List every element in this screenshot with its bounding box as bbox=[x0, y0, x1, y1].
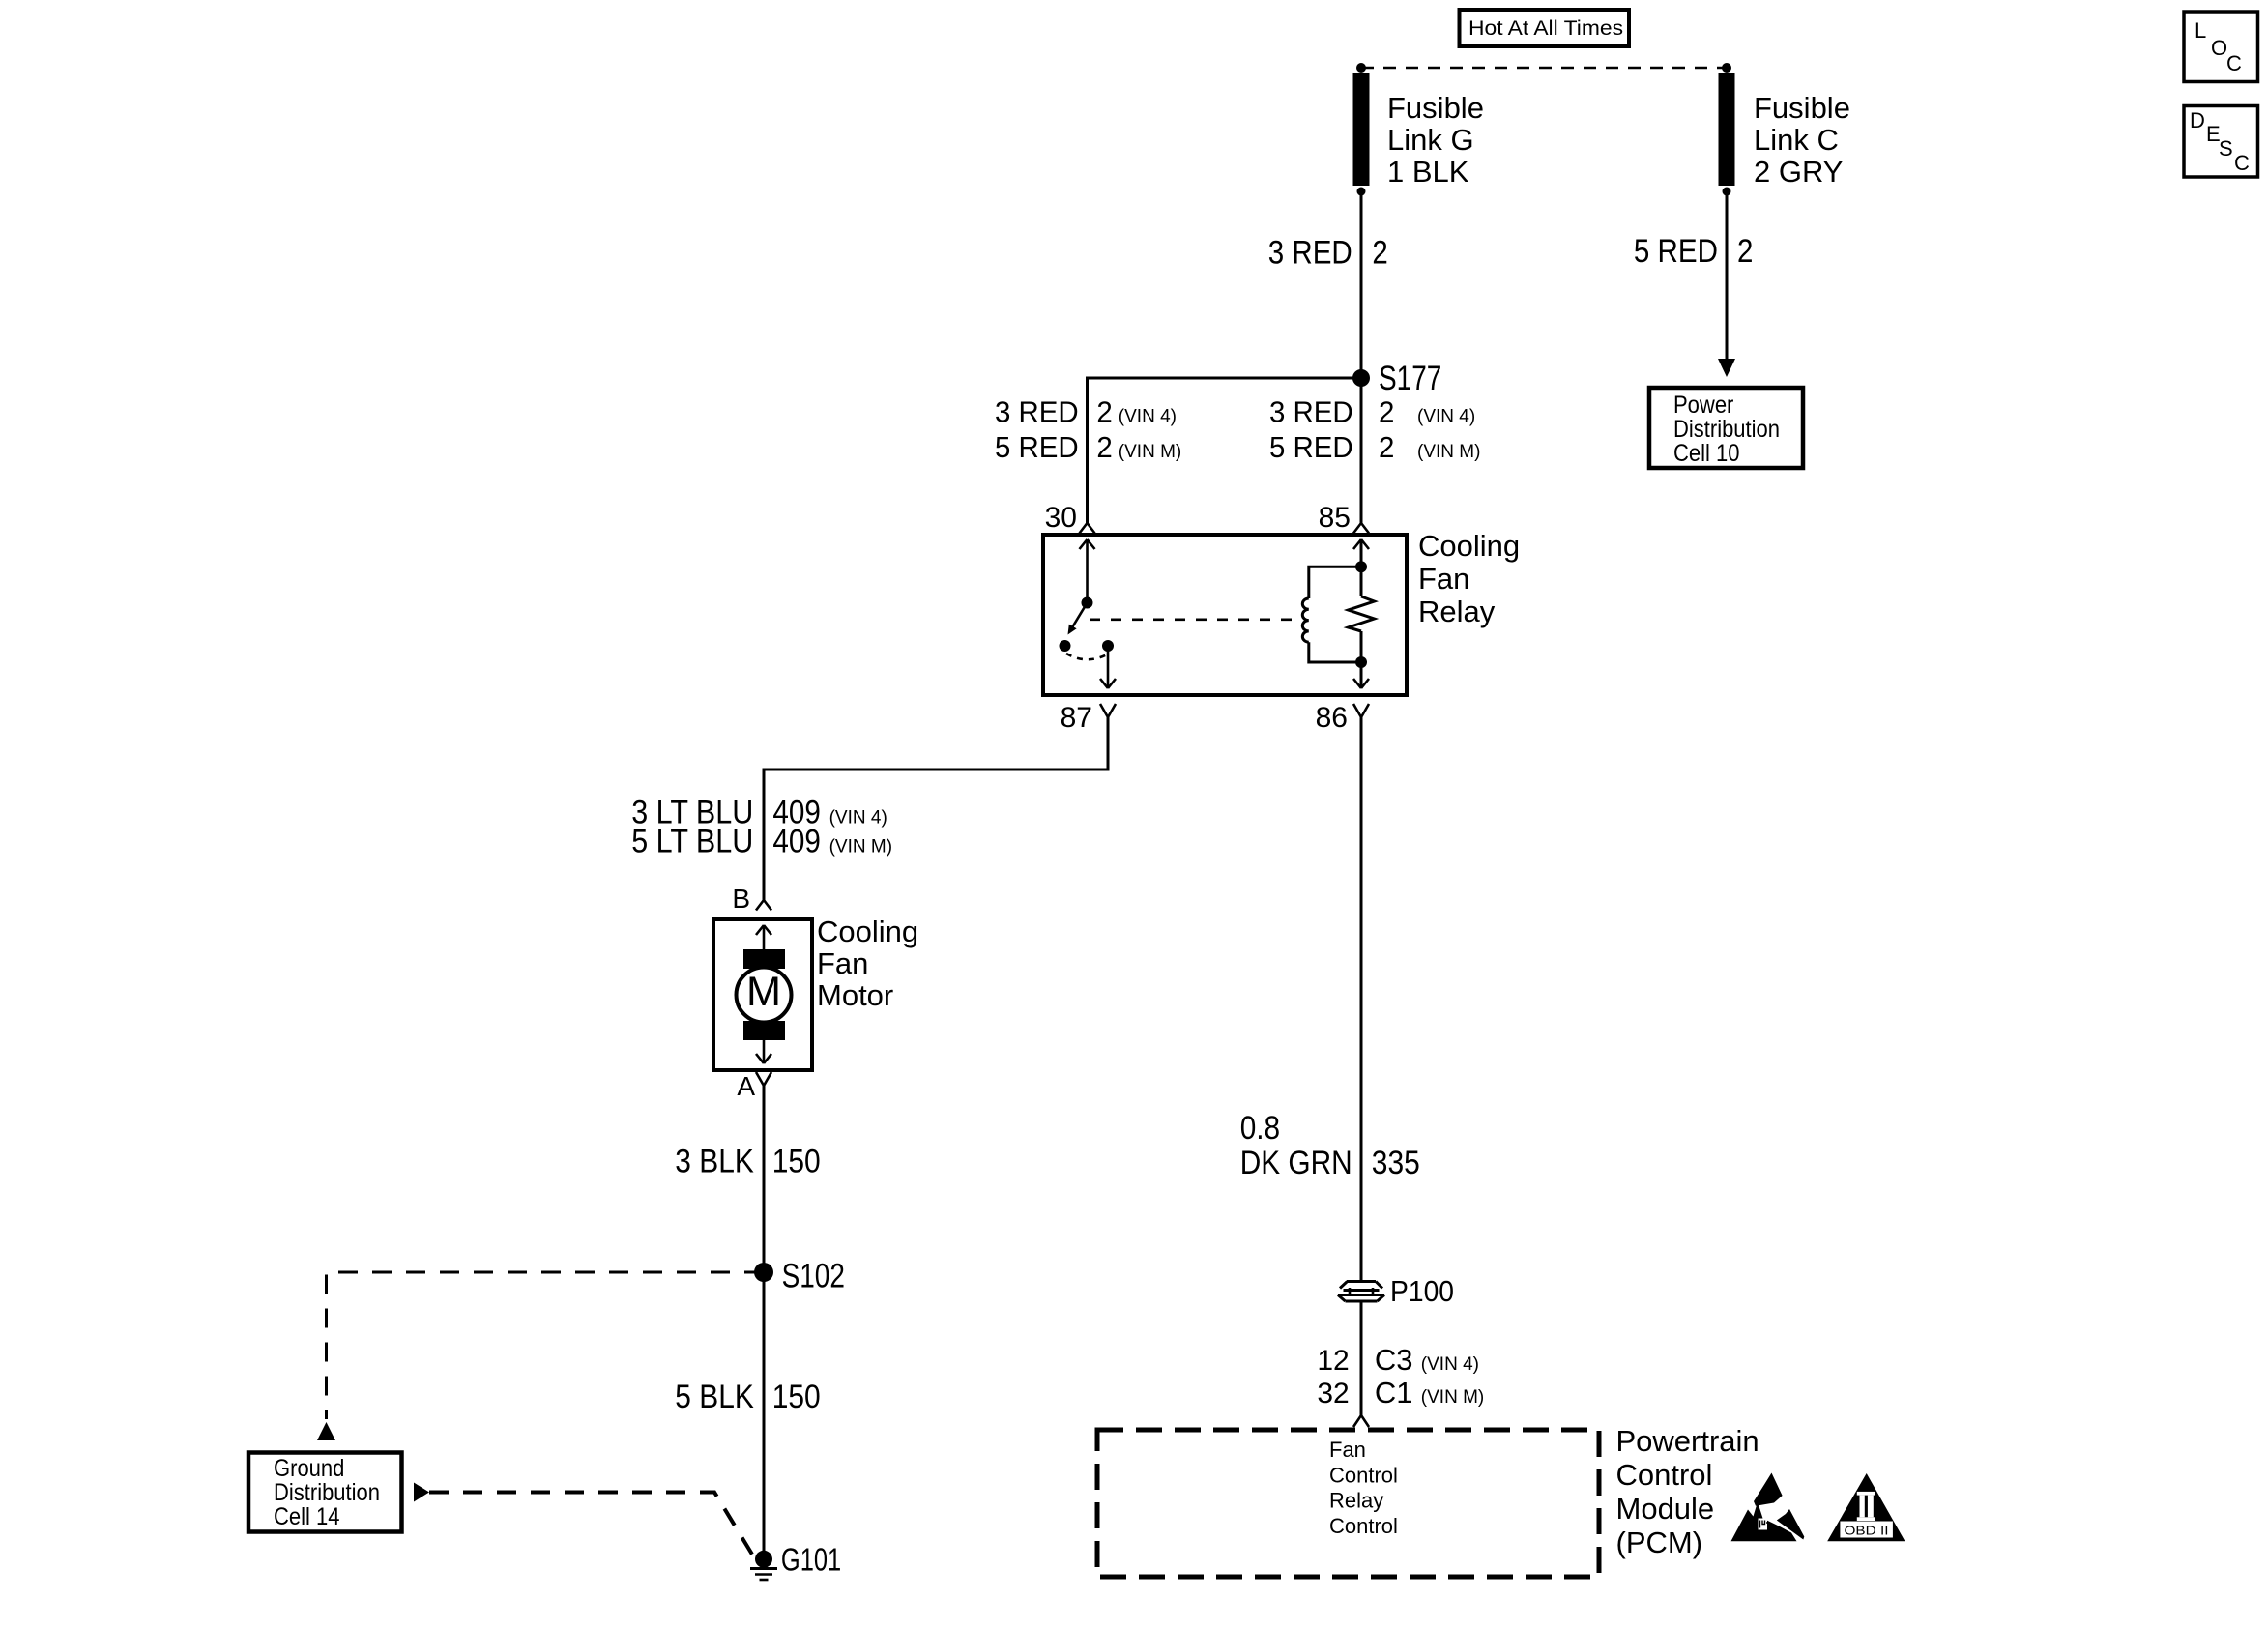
svg-text:Fan: Fan bbox=[1418, 562, 1469, 596]
node S177 splice bbox=[1352, 360, 1441, 397]
dashed wire: S102 to Ground Distribution arrow bbox=[317, 1272, 764, 1440]
svg-text:C: C bbox=[2226, 51, 2242, 75]
svg-text:86: 86 bbox=[1316, 702, 1348, 734]
svg-text:M: M bbox=[746, 969, 781, 1015]
DESC reference box bbox=[2184, 106, 2258, 178]
svg-text:Control: Control bbox=[1329, 1514, 1398, 1538]
wire label 3 RED 2 (VIN 4) / 5 RED 2 (VIN M) right branch bbox=[1269, 395, 1480, 464]
svg-text:3 RED: 3 RED bbox=[1268, 235, 1352, 272]
svg-text:3 RED: 3 RED bbox=[1269, 395, 1353, 429]
svg-text:Distribution: Distribution bbox=[1673, 416, 1780, 443]
PCM pin labels 12 C3 (VIN 4) / 32 C1 (VIN M) bbox=[1317, 1343, 1484, 1410]
wire: fusible link G to splice S177 bbox=[1360, 191, 1363, 378]
svg-text:Module: Module bbox=[1616, 1492, 1715, 1526]
svg-text:Link G: Link G bbox=[1387, 123, 1474, 157]
svg-text:Motor: Motor bbox=[817, 978, 893, 1012]
svg-text:85: 85 bbox=[1319, 502, 1351, 534]
svg-text:Hot At All Times: Hot At All Times bbox=[1468, 17, 1623, 40]
svg-text:(VIN 4): (VIN 4) bbox=[1119, 407, 1177, 427]
label Cooling Fan Relay bbox=[1418, 529, 1520, 628]
svg-text:(VIN 4): (VIN 4) bbox=[1417, 407, 1475, 427]
wire: fusible link C to Power Distribution bbox=[1718, 191, 1735, 377]
wire: S177 down to relay pin 85 bbox=[1360, 378, 1363, 523]
svg-text:(VIN M): (VIN M) bbox=[1119, 442, 1181, 462]
svg-text:2: 2 bbox=[1372, 235, 1387, 272]
svg-text:150: 150 bbox=[772, 1379, 821, 1415]
svg-text:(VIN M): (VIN M) bbox=[829, 837, 892, 858]
wire label 3 RED 2 (VIN 4) / 5 RED 2 (VIN M) left branch bbox=[995, 395, 1181, 464]
dashed wire: Ground Distribution to G101 bbox=[414, 1483, 754, 1558]
svg-text:Cell 14: Cell 14 bbox=[274, 1503, 340, 1530]
label box "Hot At All Times" bbox=[1460, 10, 1630, 46]
svg-text:3 BLK: 3 BLK bbox=[675, 1144, 754, 1180]
svg-text:Fan: Fan bbox=[817, 946, 868, 980]
motor: Cooling Fan Motor box bbox=[713, 919, 812, 1070]
svg-text:2: 2 bbox=[1096, 395, 1112, 429]
svg-text:32: 32 bbox=[1317, 1378, 1349, 1410]
svg-text:2: 2 bbox=[1379, 430, 1394, 464]
svg-text:5 RED: 5 RED bbox=[995, 430, 1079, 464]
svg-text:L: L bbox=[2195, 18, 2206, 43]
relay: pin85-86 internal line with junction dots and arrows bbox=[1353, 539, 1369, 688]
LOC reference box bbox=[2184, 12, 2258, 82]
svg-text:Control: Control bbox=[1329, 1463, 1398, 1487]
svg-text:1 BLK: 1 BLK bbox=[1387, 155, 1469, 189]
wire: relay pin 87 to motor pin B bbox=[764, 717, 1108, 900]
svg-text:(VIN M): (VIN M) bbox=[1421, 1387, 1484, 1408]
svg-text:Ground: Ground bbox=[274, 1455, 344, 1482]
svg-text:Power: Power bbox=[1673, 392, 1733, 419]
svg-text:(VIN M): (VIN M) bbox=[1417, 442, 1480, 462]
svg-text:(PCM): (PCM) bbox=[1616, 1526, 1703, 1559]
svg-text:DK GRN: DK GRN bbox=[1240, 1145, 1352, 1181]
svg-text:2: 2 bbox=[1737, 233, 1753, 270]
svg-text:(VIN 4): (VIN 4) bbox=[829, 808, 887, 829]
svg-text:Distribution: Distribution bbox=[274, 1479, 380, 1506]
svg-text:Cell 10: Cell 10 bbox=[1673, 440, 1740, 467]
svg-text:Cooling: Cooling bbox=[1418, 529, 1520, 563]
wire label 3 RED 2 bbox=[1268, 235, 1388, 272]
Power Distribution Cell 10 box bbox=[1649, 388, 1803, 468]
relay switch: pin 30 arm and contacts bbox=[1060, 539, 1117, 688]
svg-text:Fusible: Fusible bbox=[1754, 91, 1850, 125]
svg-text:87: 87 bbox=[1061, 702, 1092, 734]
wire label 3 LT BLU 409 (VIN 4) / 5 LT BLU 409 (VIN M) bbox=[631, 795, 892, 860]
svg-text:3 RED: 3 RED bbox=[995, 395, 1079, 429]
PCM pin connector bbox=[1353, 1415, 1369, 1427]
fusible link C (2 GRY) bbox=[1719, 73, 1850, 196]
svg-text:(VIN 4): (VIN 4) bbox=[1421, 1354, 1479, 1375]
svg-text:335: 335 bbox=[1372, 1145, 1420, 1181]
svg-text:150: 150 bbox=[772, 1144, 821, 1180]
icon: ESD sensitive device bbox=[1731, 1473, 1805, 1542]
Ground Distribution Cell 14 box bbox=[248, 1453, 402, 1532]
svg-text:Link C: Link C bbox=[1754, 123, 1839, 157]
svg-text:Fan: Fan bbox=[1329, 1438, 1366, 1462]
svg-text:2: 2 bbox=[1379, 395, 1394, 429]
relay pin 86 label and connector bbox=[1316, 702, 1369, 734]
relay pin 85 label and connector bbox=[1319, 502, 1369, 534]
label Fan Control Relay Control bbox=[1329, 1438, 1398, 1538]
icon: OBD II bbox=[1827, 1473, 1905, 1541]
svg-text:2 GRY: 2 GRY bbox=[1754, 155, 1843, 189]
svg-text:C3: C3 bbox=[1375, 1343, 1413, 1377]
svg-text:Fusible: Fusible bbox=[1387, 91, 1484, 125]
svg-text:5 RED: 5 RED bbox=[1269, 430, 1353, 464]
svg-text:S177: S177 bbox=[1379, 360, 1441, 397]
label Powertrain Control Module (PCM) bbox=[1616, 1424, 1759, 1559]
wire: P100 to PCM pin bbox=[1360, 1301, 1363, 1415]
svg-text:0.8: 0.8 bbox=[1240, 1110, 1280, 1147]
svg-text:30: 30 bbox=[1045, 502, 1077, 534]
wire label 0.8 DK GRN 335 bbox=[1240, 1110, 1420, 1181]
motor pin B bbox=[732, 884, 771, 914]
svg-text:A: A bbox=[737, 1071, 755, 1101]
wire label 3 BLK 150 bbox=[675, 1144, 820, 1180]
wire: relay pin 86 to P100 bbox=[1360, 717, 1363, 1280]
wire label 5 BLK 150 bbox=[675, 1379, 820, 1415]
wire: motor pin A to splice S102 bbox=[763, 1086, 766, 1272]
svg-text:Cooling: Cooling bbox=[817, 915, 918, 948]
node S102 splice bbox=[754, 1258, 845, 1295]
svg-text:Relay: Relay bbox=[1418, 595, 1496, 628]
svg-text:409: 409 bbox=[772, 824, 821, 860]
relay coil bbox=[1302, 567, 1361, 662]
svg-text:5 BLK: 5 BLK bbox=[675, 1379, 754, 1415]
svg-text:OBD II: OBD II bbox=[1845, 1524, 1889, 1538]
relay pin 87 label and connector bbox=[1061, 702, 1116, 734]
wire: dashed hot feed bus between fusible links bbox=[1356, 63, 1731, 73]
relay pin 30 label and connector bbox=[1045, 502, 1095, 534]
motor symbol M with brushes bbox=[737, 925, 792, 1063]
svg-text:12: 12 bbox=[1317, 1345, 1349, 1377]
svg-text:B: B bbox=[732, 884, 750, 914]
motor pin A bbox=[737, 1071, 771, 1101]
svg-text:P100: P100 bbox=[1390, 1274, 1454, 1308]
relay: dashed actuation link bbox=[1090, 618, 1294, 621]
PCM: Powertrain Control Module dashed box bbox=[1097, 1430, 1599, 1577]
svg-text:2: 2 bbox=[1096, 430, 1112, 464]
connector P100 grommet bbox=[1338, 1274, 1454, 1308]
relay resistor bbox=[1349, 596, 1375, 631]
svg-text:5 LT BLU: 5 LT BLU bbox=[631, 824, 753, 860]
label Cooling Fan Motor bbox=[817, 915, 918, 1012]
wire label 5 RED 2 bbox=[1634, 233, 1754, 270]
relay: Cooling Fan Relay box bbox=[1043, 535, 1407, 695]
svg-text:C1: C1 bbox=[1375, 1376, 1413, 1410]
svg-text:Powertrain: Powertrain bbox=[1616, 1424, 1759, 1458]
svg-text:Relay: Relay bbox=[1329, 1489, 1383, 1513]
wire: S102 to ground G101 bbox=[763, 1272, 766, 1559]
svg-text:C: C bbox=[2234, 151, 2250, 175]
svg-text:G101: G101 bbox=[781, 1542, 841, 1578]
svg-text:S: S bbox=[2219, 136, 2233, 160]
wire: S177 branch to relay pin 30 bbox=[1088, 378, 1362, 523]
ground G101 bbox=[750, 1542, 841, 1581]
svg-text:D: D bbox=[2190, 108, 2205, 132]
svg-text:S102: S102 bbox=[782, 1258, 845, 1295]
svg-text:5 RED: 5 RED bbox=[1634, 233, 1718, 270]
svg-text:Control: Control bbox=[1616, 1458, 1713, 1492]
svg-text:O: O bbox=[2211, 36, 2227, 60]
fusible link G (1 BLK) bbox=[1353, 73, 1484, 196]
